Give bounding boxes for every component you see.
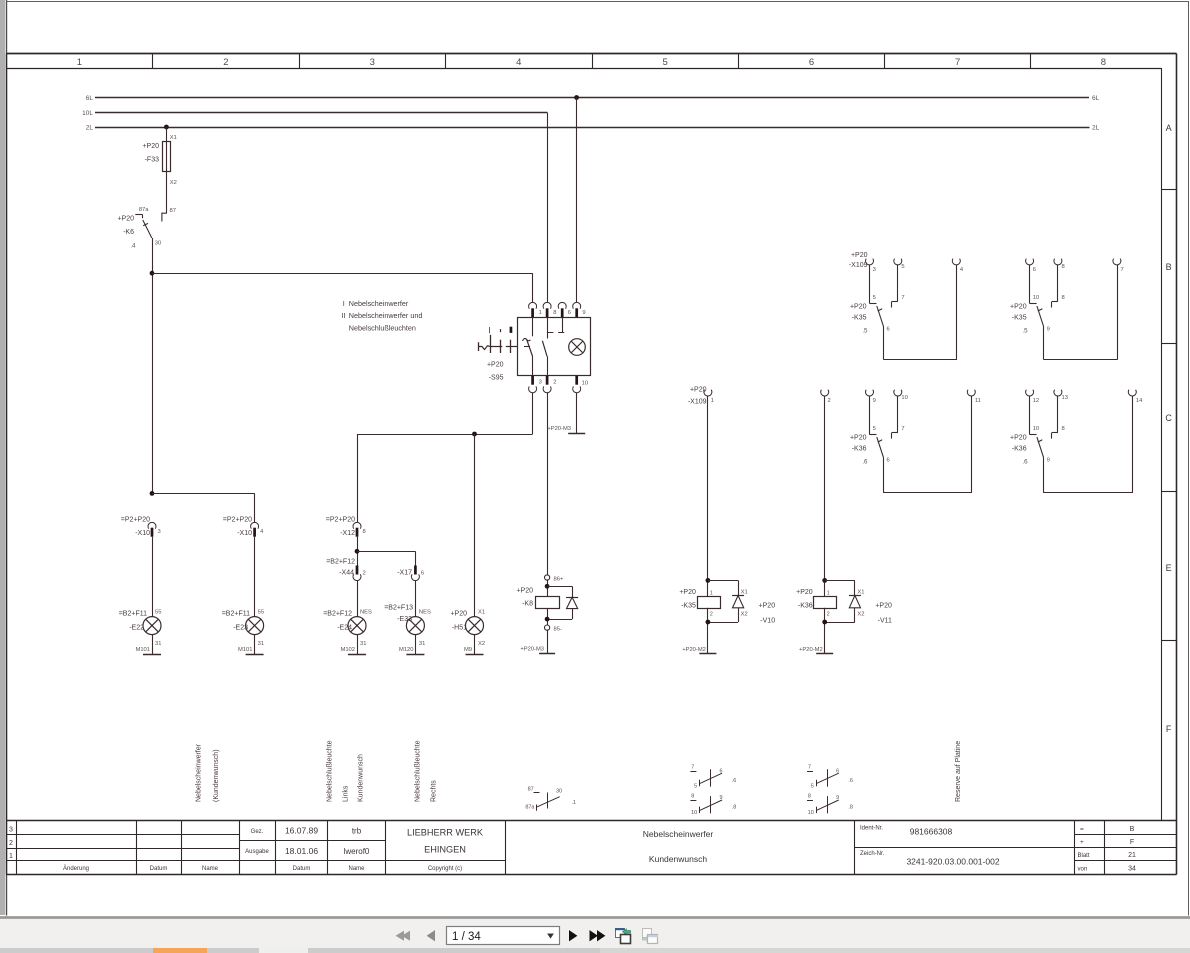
svg-text:+P20: +P20 [850,304,867,311]
svg-text:1: 1 [711,398,714,404]
svg-text:1 / 34: 1 / 34 [452,931,481,943]
svg-text:9: 9 [836,795,839,801]
svg-text:.5: .5 [862,328,868,335]
svg-text:31: 31 [360,641,366,647]
svg-text:+P20: +P20 [759,603,776,610]
svg-text:87a: 87a [139,207,149,213]
svg-text:=P2+P20: =P2+P20 [121,517,150,524]
svg-text:Änderung: Änderung [63,865,89,872]
svg-text:1: 1 [710,591,713,597]
svg-text:-K35: -K35 [1012,315,1027,322]
svg-text:+P20: +P20 [1010,435,1027,442]
svg-text:-V10: -V10 [760,618,775,625]
svg-text:9: 9 [1047,327,1050,333]
svg-text:7: 7 [901,295,904,301]
svg-text:3: 3 [158,529,161,535]
svg-text:5: 5 [663,57,668,68]
svg-text:3: 3 [370,57,375,68]
svg-text:.6: .6 [1022,459,1028,466]
svg-text:-X10: -X10 [237,530,252,537]
svg-text:+P20: +P20 [851,252,868,259]
svg-text:2: 2 [710,612,713,618]
svg-text:.5: .5 [1022,328,1028,335]
svg-text:F: F [1166,724,1172,734]
svg-text:55: 55 [258,610,264,616]
svg-text:Gez.: Gez. [251,829,264,835]
svg-text:-X12: -X12 [340,530,355,537]
svg-text:14: 14 [1136,398,1143,404]
svg-text:-E23: -E23 [233,625,248,632]
svg-text:11: 11 [975,398,981,404]
svg-text:6: 6 [1033,267,1036,273]
svg-text:+P20: +P20 [679,589,696,596]
svg-text:-F33: -F33 [145,157,160,164]
svg-text:5: 5 [901,264,904,270]
svg-text:-H51: -H51 [452,625,467,632]
svg-text:9: 9 [582,310,585,316]
svg-text:10: 10 [1033,295,1039,301]
svg-text:3: 3 [9,827,13,834]
svg-text:.8: .8 [848,805,853,811]
svg-text:8: 8 [363,529,366,535]
svg-text:+P20: +P20 [875,603,892,610]
svg-text:7: 7 [691,764,694,770]
svg-text:6L: 6L [1092,95,1100,102]
svg-text:F: F [1130,839,1134,846]
svg-text:6: 6 [887,458,890,464]
svg-text:6: 6 [421,571,424,577]
svg-text:=B2+F12: =B2+F12 [326,558,355,565]
svg-text:Zeich-Nr.: Zeich-Nr. [860,851,885,857]
svg-text:=B2+F13: =B2+F13 [384,605,413,612]
svg-text:1: 1 [77,57,82,68]
svg-text:7: 7 [808,764,811,770]
svg-text:10: 10 [1033,426,1039,432]
svg-text:-K6: -K6 [123,229,134,236]
svg-text:+P20: +P20 [1010,304,1027,311]
svg-text:+P20-M3: +P20-M3 [547,426,571,432]
svg-text:Nebelschlußleuchte: Nebelschlußleuchte [327,740,334,802]
svg-text:+P20: +P20 [850,435,867,442]
svg-text:2: 2 [223,57,228,68]
svg-text:-E33: -E33 [397,616,412,623]
svg-text:=: = [1080,826,1084,833]
svg-text:2: 2 [553,379,556,385]
svg-text:(Kundenwunsch): (Kundenwunsch) [213,749,220,802]
svg-text:1: 1 [9,853,13,860]
svg-text:8: 8 [1101,57,1106,68]
svg-text:-K36: -K36 [798,603,813,610]
svg-text:C: C [1165,413,1172,423]
svg-text:+P20: +P20 [796,589,813,596]
svg-text:+: + [1080,839,1084,846]
svg-text:981666308: 981666308 [910,827,953,837]
svg-text:X1: X1 [478,610,485,616]
svg-text:31: 31 [155,641,161,647]
svg-text:.6: .6 [732,778,737,784]
svg-text:30: 30 [556,788,562,794]
svg-text:8: 8 [553,310,556,316]
svg-text:Nebelschlußleuchten: Nebelschlußleuchten [349,324,416,333]
svg-text:Nebelscheinwerfer: Nebelscheinwerfer [643,829,714,839]
svg-text:-X109: -X109 [688,399,707,406]
svg-text:34: 34 [1128,866,1136,873]
svg-text:-X17: -X17 [397,570,412,577]
svg-text:M102: M102 [340,647,355,653]
svg-text:+P20: +P20 [516,588,533,595]
svg-text:87: 87 [170,208,176,214]
svg-text:Nebelscheinwerfer: Nebelscheinwerfer [349,299,409,308]
svg-text:8: 8 [691,793,694,799]
svg-text:Links: Links [343,785,350,802]
svg-text:12: 12 [1033,398,1039,404]
svg-text:8: 8 [808,793,811,799]
svg-text:X2: X2 [170,180,177,186]
svg-text:7: 7 [955,57,960,68]
svg-text:1: 1 [827,591,830,597]
svg-text:Datum: Datum [150,866,168,872]
svg-text:5: 5 [694,783,697,789]
svg-text:4: 4 [516,57,521,68]
svg-text:-K35: -K35 [681,603,696,610]
svg-text:2L: 2L [86,125,94,132]
svg-text:.4: .4 [130,243,136,250]
svg-text:NES: NES [419,610,431,616]
svg-text:X1: X1 [857,590,864,596]
svg-text:5: 5 [873,295,876,301]
svg-text:A: A [1166,123,1172,133]
svg-text:Name: Name [348,866,365,872]
svg-text:18.01.06: 18.01.06 [285,846,318,856]
svg-text:X2: X2 [857,612,864,618]
svg-text:2L: 2L [1092,125,1100,132]
svg-text:-K36: -K36 [852,446,867,453]
svg-text:6: 6 [720,768,723,774]
svg-text:Nebelschlußleuchte: Nebelschlußleuchte [415,740,422,802]
svg-text:+P20: +P20 [487,362,504,369]
svg-text:3241-920.03.00.001-002: 3241-920.03.00.001-002 [906,857,999,867]
svg-text:=P2+P20: =P2+P20 [326,517,355,524]
svg-text:+P20-M2: +P20-M2 [799,647,823,653]
svg-text:6: 6 [568,310,571,316]
svg-text:21: 21 [1128,852,1136,859]
svg-text:.1: .1 [572,800,577,806]
svg-text:NES: NES [360,610,372,616]
svg-text:13: 13 [1062,395,1068,401]
svg-text:-K35: -K35 [852,315,867,322]
svg-text:-V11: -V11 [878,618,892,625]
svg-text:M101: M101 [238,647,253,653]
svg-text:7: 7 [1121,267,1124,273]
svg-text:X2: X2 [741,612,748,618]
svg-text:EHINGEN: EHINGEN [424,845,466,855]
svg-text:+P20-M3: +P20-M3 [520,647,544,653]
svg-text:M101: M101 [135,647,150,653]
svg-text:6: 6 [836,768,839,774]
svg-text:9: 9 [720,795,723,801]
svg-text:87a: 87a [525,805,535,811]
svg-text:Copyright (c): Copyright (c) [428,866,462,872]
svg-text:31: 31 [258,641,264,647]
svg-text:lwerof0: lwerof0 [344,847,370,856]
svg-text:X1: X1 [741,590,748,596]
svg-text:8: 8 [1062,426,1065,432]
svg-text:-S95: -S95 [489,375,504,382]
svg-text:M9: M9 [464,647,472,653]
svg-text:Nebelscheinwerfer und: Nebelscheinwerfer und [349,311,423,320]
svg-text:6: 6 [887,327,890,333]
svg-text:-X44: -X44 [339,570,354,577]
svg-text:.6: .6 [848,778,853,784]
svg-text:55: 55 [155,610,161,616]
svg-text:Ident-Nr.: Ident-Nr. [860,826,883,832]
svg-text:.8: .8 [732,805,737,811]
svg-text:=B2+F11: =B2+F11 [119,611,147,618]
svg-text:6: 6 [809,57,814,68]
svg-text:9: 9 [1047,458,1050,464]
svg-text:+P20-M2: +P20-M2 [682,647,706,653]
svg-text:Datum: Datum [293,866,311,872]
svg-text:Name: Name [202,866,219,872]
svg-text:30: 30 [155,241,161,247]
svg-text:31: 31 [419,641,425,647]
svg-text:1: 1 [539,310,542,316]
svg-text:II: II [341,311,345,320]
svg-text:Reserve auf Platine: Reserve auf Platine [955,741,962,802]
svg-text:trb: trb [352,827,362,836]
svg-text:=B2+F11: =B2+F11 [222,611,250,618]
svg-text:2: 2 [363,571,366,577]
svg-text:=P2+P20: =P2+P20 [223,517,252,524]
svg-text:Rechts: Rechts [431,780,438,802]
svg-text:16.07.89: 16.07.89 [285,826,318,836]
svg-text:Ausgabe: Ausgabe [245,849,269,855]
svg-text:10L: 10L [82,110,93,117]
svg-text:-X109: -X109 [849,262,868,269]
svg-text:10: 10 [582,381,588,387]
svg-text:X2: X2 [478,641,485,647]
svg-text:9: 9 [873,398,876,404]
svg-text:10: 10 [808,810,814,816]
svg-text:M120: M120 [399,647,414,653]
svg-text:10: 10 [691,810,697,816]
svg-text:Kundenwunsch: Kundenwunsch [649,854,707,864]
svg-text:B: B [1130,826,1135,833]
svg-text:5: 5 [811,783,814,789]
svg-text:+P20: +P20 [690,387,707,394]
svg-text:-K36: -K36 [1012,446,1027,453]
svg-text:.6: .6 [862,459,868,466]
svg-text:2: 2 [827,612,830,618]
svg-text:-E24: -E24 [337,625,352,632]
svg-text:+P20: +P20 [142,143,159,150]
svg-text:I: I [343,299,345,308]
svg-text:2: 2 [828,398,831,404]
svg-text:B: B [1166,262,1172,272]
svg-text:Kundenwunsch: Kundenwunsch [358,754,365,802]
svg-text:X1: X1 [170,135,177,141]
svg-text:=B2+F12: =B2+F12 [323,611,352,618]
svg-text:3: 3 [873,267,876,273]
svg-text:von: von [1078,867,1088,873]
svg-text:Nebelscheinwerfer: Nebelscheinwerfer [196,743,203,802]
svg-text:10: 10 [901,395,907,401]
svg-text:87: 87 [528,786,534,792]
svg-text:8: 8 [1062,264,1065,270]
svg-text:7: 7 [901,426,904,432]
svg-text:LIEBHERR WERK: LIEBHERR WERK [407,828,484,838]
svg-text:85-: 85- [554,627,562,633]
svg-text:86+: 86+ [554,577,564,583]
svg-text:3: 3 [539,379,542,385]
svg-text:E: E [1166,563,1172,573]
svg-text:-X10: -X10 [135,530,150,537]
svg-text:Blatt: Blatt [1078,853,1090,859]
svg-text:5: 5 [873,426,876,432]
svg-text:-K8: -K8 [522,601,533,608]
svg-text:+P20: +P20 [117,216,134,223]
svg-text:2: 2 [9,840,13,847]
svg-text:6L: 6L [86,95,94,102]
svg-text:+P20: +P20 [450,611,467,618]
svg-text:-E22: -E22 [129,625,144,632]
svg-text:8: 8 [1062,295,1065,301]
